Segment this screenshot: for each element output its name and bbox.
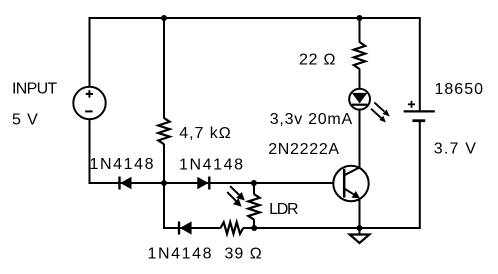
diode D1 1N4148 <box>120 177 132 190</box>
svg-text:1N4148: 1N4148 <box>148 245 214 262</box>
wire resistor column upper <box>163 17 165 119</box>
svg-text:3.7 V: 3.7 V <box>434 141 477 158</box>
LED emission arrow 2 <box>371 109 386 123</box>
junction node bottom row / LDR bottom <box>251 225 257 231</box>
diode D2 1N4148 <box>197 177 209 190</box>
resistor R1 4,7 kOhm <box>158 118 169 144</box>
label 3.7 V <box>434 141 477 158</box>
svg-text:18650: 18650 <box>435 81 485 98</box>
label INPUT <box>12 81 57 98</box>
label 3,3v 20mA <box>270 111 353 128</box>
label 18650 <box>435 81 485 98</box>
label 4,7 kOhm <box>179 125 231 142</box>
svg-text:5 V: 5 V <box>12 112 39 129</box>
junction node top rail / R2 <box>357 15 363 21</box>
battery BT1 18650 <box>404 101 435 121</box>
wire bottom row right segment <box>243 227 420 229</box>
label 1N4148 (D2) <box>179 156 245 173</box>
svg-text:INPUT: INPUT <box>12 81 57 98</box>
wire left column lower <box>89 119 91 184</box>
wire resistor column lower <box>163 144 165 229</box>
svg-text:4,7 kΩ: 4,7 kΩ <box>179 125 231 142</box>
svg-text:1N4148: 1N4148 <box>90 156 156 173</box>
wire right column lower <box>419 122 421 229</box>
junction node middle row / R1-D1-D2 <box>161 180 167 186</box>
transistor Q1 2N2222A <box>333 166 368 201</box>
svg-text:1N4148: 1N4148 <box>179 156 245 173</box>
resistor R2 22 Ohm <box>354 42 365 69</box>
junction node middle row / LDR top <box>251 180 257 186</box>
svg-text:39 Ω: 39 Ω <box>225 245 263 262</box>
wire top rail <box>90 17 420 19</box>
voltage source V1 <box>73 87 105 119</box>
wire right column upper <box>419 17 421 110</box>
junction node ground <box>357 225 363 231</box>
label LDR <box>269 201 298 218</box>
label 22 Ohm <box>299 51 336 68</box>
LDR light arrow 2 <box>227 192 241 207</box>
wire LED to transistor collector <box>359 110 361 169</box>
photoresistor LDR <box>248 183 259 228</box>
wire bottom row left segment <box>163 227 221 229</box>
diode D3 1N4148 <box>179 221 192 234</box>
label 1N4148 (D1) <box>90 156 156 173</box>
wire middle row <box>89 182 345 184</box>
resistor R3 39 Ohm <box>221 222 244 234</box>
LED D4 <box>349 89 370 110</box>
ground <box>350 228 370 243</box>
junction node top rail / R1 <box>161 15 167 21</box>
wire R2 to LED <box>359 69 361 90</box>
LDR light arrow 1 <box>230 186 245 200</box>
svg-text:2N2222A: 2N2222A <box>268 141 340 158</box>
label 5 V <box>12 112 39 129</box>
label 39 Ohm <box>225 245 263 262</box>
svg-text:3,3v 20mA: 3,3v 20mA <box>270 111 353 128</box>
svg-text:22 Ω: 22 Ω <box>299 51 336 68</box>
wire transistor emitter to ground node <box>359 199 361 228</box>
LED emission arrow 1 <box>374 102 390 116</box>
label 1N4148 (D3) <box>148 245 214 262</box>
wire left column upper <box>89 17 91 87</box>
wire LED column upper <box>359 17 361 42</box>
svg-text:LDR: LDR <box>269 201 298 218</box>
label 2N2222A <box>268 141 340 158</box>
